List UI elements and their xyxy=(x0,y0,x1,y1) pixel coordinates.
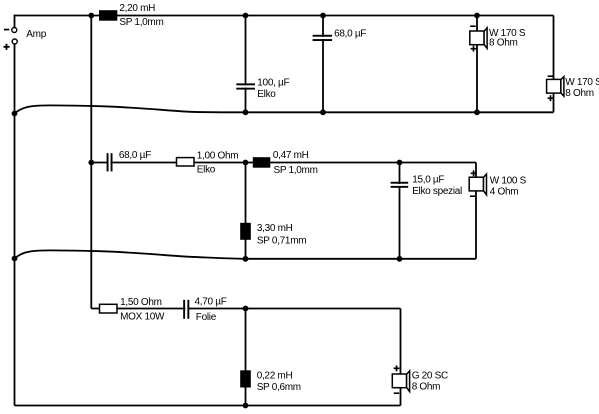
svg-text:68,0 µF: 68,0 µF xyxy=(334,28,366,39)
svg-text:Folie: Folie xyxy=(196,312,217,323)
svg-text:SP 0,6mm: SP 0,6mm xyxy=(257,382,301,393)
svg-text:MOX 10W: MOX 10W xyxy=(120,311,165,322)
svg-text:0,22 mH: 0,22 mH xyxy=(257,370,293,381)
svg-text:1,00 Ohm: 1,00 Ohm xyxy=(197,151,239,162)
svg-text:1,50 Ohm: 1,50 Ohm xyxy=(120,297,162,308)
svg-text:SP 1,0mm: SP 1,0mm xyxy=(119,17,163,28)
svg-text:100, µF: 100, µF xyxy=(257,78,289,89)
svg-text:8 Ohm: 8 Ohm xyxy=(565,88,594,99)
svg-text:Elko: Elko xyxy=(197,164,216,175)
svg-text:15,0 µF: 15,0 µF xyxy=(412,174,444,185)
svg-text:68,0 µF: 68,0 µF xyxy=(119,150,151,161)
svg-text:W 170 S: W 170 S xyxy=(565,77,599,88)
svg-text:Amp: Amp xyxy=(26,29,46,40)
svg-text:SP 0,71mm: SP 0,71mm xyxy=(257,236,306,247)
svg-text:SP 1,0mm: SP 1,0mm xyxy=(274,165,318,176)
svg-text:3,30 mH: 3,30 mH xyxy=(257,223,293,234)
svg-text:4 Ohm: 4 Ohm xyxy=(490,187,519,198)
svg-text:0,47 mH: 0,47 mH xyxy=(273,150,309,161)
svg-text:2,20 mH: 2,20 mH xyxy=(119,3,155,14)
svg-text:G 20 SC: G 20 SC xyxy=(412,371,448,382)
svg-text:8 Ohm: 8 Ohm xyxy=(412,382,441,393)
svg-text:4,70 µF: 4,70 µF xyxy=(195,296,227,307)
svg-text:Elko spezial: Elko spezial xyxy=(412,186,462,197)
svg-text:Elko: Elko xyxy=(257,89,276,100)
svg-text:W 100 S: W 100 S xyxy=(490,176,527,187)
svg-text:8 Ohm: 8 Ohm xyxy=(489,38,518,49)
